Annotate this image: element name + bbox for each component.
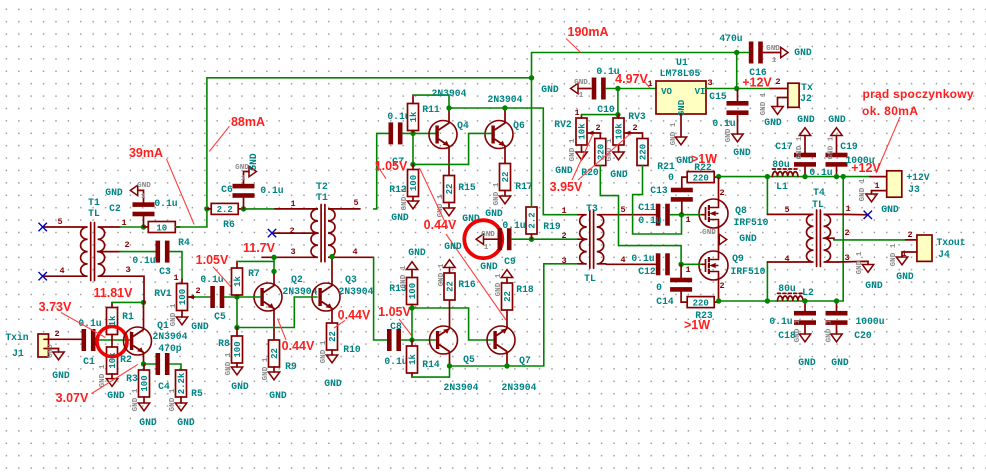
svg-text:2: 2: [775, 77, 780, 87]
svg-text:IRF510: IRF510: [734, 217, 769, 228]
ground J4: [896, 257, 907, 265]
node T4 pin5 drop: [765, 174, 770, 179]
svg-text:5: 5: [353, 198, 358, 208]
svg-text:1: 1: [845, 204, 850, 214]
transistor Q6 2N3904: [485, 121, 513, 149]
resistor R23 220: [687, 297, 714, 308]
svg-text:220: 220: [693, 298, 709, 308]
svg-text:R10: R10: [343, 344, 361, 355]
svg-text:Txin: Txin: [5, 332, 28, 343]
svg-text:GND 1: GND 1: [670, 122, 678, 145]
capacitor C20: [826, 311, 848, 325]
svg-text:GND: GND: [739, 233, 757, 244]
svg-text:GND: GND: [269, 390, 287, 401]
svg-text:39mA: 39mA: [129, 146, 163, 160]
mosfet Q9 IRF510: [699, 251, 728, 280]
resistor R7 1k: [232, 268, 243, 295]
svg-text:5: 5: [784, 205, 789, 215]
svg-text:0.1u: 0.1u: [638, 215, 661, 226]
wire C15 node to J2: [737, 88, 770, 90]
svg-text:GND: GND: [733, 147, 751, 158]
svg-text:220: 220: [639, 144, 649, 160]
svg-text:C10: C10: [597, 104, 615, 115]
svg-text:GND 1: GND 1: [495, 273, 503, 296]
svg-text:C14: C14: [656, 296, 674, 307]
node feed tee: [529, 75, 534, 80]
svg-text:10: 10: [156, 223, 167, 233]
potentiometer RV2 10k: [576, 118, 587, 145]
svg-text:1.05V: 1.05V: [378, 305, 411, 319]
ground R13 above: [406, 262, 417, 270]
svg-text:GND 1: GND 1: [320, 340, 328, 363]
svg-text:TL: TL: [812, 199, 824, 210]
capacitor C11: [656, 204, 670, 226]
svg-text:GND 1: GND 1: [170, 303, 178, 326]
wire node to T3 pin2: [532, 238, 579, 240]
wire C8 to Q5 base: [401, 339, 436, 341]
svg-text:R6: R6: [223, 219, 235, 230]
svg-text:220: 220: [693, 173, 709, 183]
resistor R3 100: [139, 370, 150, 397]
node collector Q1: [141, 300, 146, 305]
mosfet Q8 IRF510: [699, 199, 728, 228]
svg-text:R1: R1: [122, 311, 134, 322]
svg-text:RV3: RV3: [628, 111, 646, 122]
svg-text:GND: GND: [137, 182, 151, 190]
transformer T3: [561, 203, 625, 284]
wire U1 VI to C15 node: [706, 88, 737, 90]
svg-text:TL: TL: [88, 208, 100, 219]
svg-text:Q8: Q8: [735, 205, 747, 216]
svg-text:L1: L1: [776, 181, 788, 192]
svg-text:GND: GND: [555, 165, 573, 176]
svg-text:2N3904: 2N3904: [488, 94, 523, 105]
node Q2 base: [234, 294, 239, 299]
svg-text:R4: R4: [178, 237, 190, 248]
svg-text:4.97V: 4.97V: [615, 72, 648, 86]
wire R14 bottom to collector node: [412, 366, 450, 377]
svg-text:GND 1: GND 1: [438, 263, 446, 286]
wire T4 pin2 to J4: [834, 239, 906, 241]
node Q5 collector: [447, 363, 452, 368]
ground R10: [326, 355, 337, 363]
svg-text:1: 1: [574, 108, 579, 118]
ground J1: [53, 352, 64, 360]
svg-text:GND: GND: [896, 271, 914, 282]
ground RV3: [613, 152, 624, 160]
svg-text:R19: R19: [543, 221, 561, 232]
resistor R16 22: [444, 273, 455, 300]
wire 4.97V node down: [617, 89, 619, 115]
svg-text:GND 1: GND 1: [796, 136, 804, 159]
ground C10: [571, 83, 578, 93]
svg-text:GND 1: GND 1: [262, 357, 270, 380]
svg-text:>1W: >1W: [691, 152, 717, 166]
svg-text:GND 1: GND 1: [493, 182, 501, 205]
svg-text:U1: U1: [676, 57, 688, 68]
svg-text:GND: GND: [797, 114, 815, 125]
svg-text:GND 1: GND 1: [725, 119, 733, 142]
svg-text:2N3904: 2N3904: [444, 382, 479, 393]
svg-text:2: 2: [54, 329, 59, 339]
capacitor C5: [210, 286, 224, 308]
svg-text:R7: R7: [248, 268, 260, 279]
svg-text:100: 100: [178, 289, 188, 305]
capacitor C13: [671, 188, 693, 202]
svg-text:GND 1: GND 1: [760, 92, 768, 115]
wire T2 pin3 node down to Q2 collector: [273, 257, 275, 271]
svg-text:prąd spoczynkowy: prąd spoczynkowy: [863, 87, 974, 101]
svg-text:3: 3: [844, 253, 849, 263]
svg-text:2: 2: [195, 286, 200, 296]
node R6 right C6: [241, 206, 246, 211]
svg-text:GND: GND: [702, 229, 716, 237]
svg-text:ok. 80mA: ok. 80mA: [862, 104, 918, 118]
svg-text:GND: GND: [324, 378, 342, 389]
node T4 pin4 drop: [765, 298, 770, 303]
svg-text:100: 100: [408, 283, 418, 299]
svg-text:R21: R21: [657, 161, 675, 172]
svg-text:C1: C1: [83, 356, 95, 367]
svg-text:GND: GND: [766, 45, 780, 53]
svg-text:0.1u: 0.1u: [78, 318, 101, 329]
resistor R22 220: [687, 172, 714, 183]
svg-text:22: 22: [501, 172, 511, 183]
ground R15: [443, 208, 454, 216]
svg-text:C20: C20: [854, 330, 872, 341]
svg-text:GND 1: GND 1: [856, 251, 864, 274]
svg-text:R16: R16: [458, 279, 476, 290]
capacitor C19: [826, 153, 848, 167]
svg-text:10k: 10k: [578, 123, 588, 140]
wire T3 pin4 to C12: [606, 263, 656, 265]
svg-text:R11: R11: [422, 104, 440, 115]
svg-text:GND: GND: [248, 153, 259, 171]
svg-text:1: 1: [173, 273, 178, 283]
svg-text:C3: C3: [159, 266, 171, 277]
resistor R4 10: [148, 222, 175, 233]
wire RV2 wiper to R20: [594, 133, 600, 139]
node R12 tap: [410, 162, 415, 167]
capacitor C8: [387, 329, 401, 351]
svg-text:3: 3: [561, 256, 566, 266]
capacitor C15: [727, 101, 749, 115]
resistor R17 22: [500, 164, 511, 191]
svg-text:2: 2: [719, 188, 724, 198]
ground C15: [732, 134, 743, 142]
svg-text:2: 2: [844, 228, 849, 238]
node Q5 base: [409, 337, 414, 342]
resistor R12 100: [408, 170, 419, 197]
node R8 tap: [234, 325, 239, 330]
svg-text:GND: GND: [105, 187, 123, 198]
svg-text:R5: R5: [191, 388, 203, 399]
capacitor C17: [794, 153, 816, 167]
ground R17: [499, 196, 510, 204]
svg-text:1: 1: [141, 193, 146, 201]
svg-text:R18: R18: [516, 284, 534, 295]
svg-text:3.73V: 3.73V: [39, 300, 72, 314]
svg-text:GND: GND: [610, 169, 628, 180]
svg-text:Tx: Tx: [801, 82, 813, 93]
svg-text:2: 2: [124, 240, 129, 250]
svg-text:T1: T1: [316, 192, 328, 203]
wire T2 pin5 down to C7: [374, 133, 388, 209]
svg-text:1k: 1k: [108, 315, 118, 326]
node T2 pin3: [271, 255, 276, 260]
svg-text:GND: GND: [574, 79, 588, 87]
resistor R1 1k: [107, 308, 118, 335]
svg-text:2.2: 2.2: [528, 212, 538, 228]
ground R2: [106, 379, 117, 387]
capacitor C1: [82, 329, 96, 351]
svg-text:GND: GND: [408, 247, 426, 258]
wire T1 pin3 down to Q1 collector: [120, 276, 144, 302]
svg-text:80u: 80u: [772, 159, 790, 170]
svg-text:0.1u: 0.1u: [769, 316, 792, 327]
svg-text:C11: C11: [638, 202, 656, 213]
capacitor C14: [670, 278, 692, 292]
wire T3 pin5 to C11: [606, 214, 656, 216]
node C15: [734, 86, 739, 91]
svg-text:R8: R8: [218, 338, 230, 349]
svg-text:3: 3: [707, 78, 712, 88]
svg-text:T2: T2: [316, 181, 328, 192]
svg-text:1.05V: 1.05V: [196, 253, 229, 267]
node 4.97V: [615, 86, 620, 91]
svg-text:GND: GND: [881, 204, 899, 215]
resistor R11 1k: [408, 104, 419, 131]
wire R4 right up the feed rail: [176, 78, 532, 227]
ground C9: [476, 234, 483, 244]
no-connect T2 pin 2: [268, 229, 276, 237]
resistor R8 100: [232, 336, 243, 363]
svg-text:2N3904: 2N3904: [153, 331, 188, 342]
svg-text:VI: VI: [695, 87, 706, 97]
wire to T2 pin1: [244, 208, 276, 210]
wire C4 to R5: [170, 364, 182, 371]
svg-text:R14: R14: [422, 359, 440, 370]
resistor R14 1k: [407, 346, 418, 373]
svg-text:J1: J1: [12, 348, 24, 359]
svg-text:5: 5: [57, 217, 62, 227]
svg-text:GND 1: GND 1: [569, 138, 577, 161]
svg-text:C18: C18: [778, 330, 796, 341]
wire C1 to base node: [96, 339, 131, 341]
svg-text:J2: J2: [800, 93, 812, 104]
svg-text:T4: T4: [813, 187, 825, 198]
svg-text:C2: C2: [109, 203, 121, 214]
no-connect T1 pin 4: [39, 272, 47, 280]
svg-text:J4: J4: [938, 249, 950, 260]
svg-text:T3: T3: [586, 203, 598, 214]
svg-text:GND: GND: [541, 84, 559, 95]
connector J3 +12V: [872, 171, 902, 197]
wire C11 to gate node: [670, 214, 682, 216]
svg-text:Q3: Q3: [345, 274, 357, 285]
wire emitter to C4: [144, 363, 157, 365]
J1 pin 1 to ground: [49, 349, 59, 353]
svg-text:>1W: >1W: [684, 318, 710, 332]
ground R9: [268, 372, 279, 380]
wire Q2 base to Q3 base link: [237, 297, 317, 328]
ground C6: [249, 166, 256, 176]
transistor Q1 2N3904: [124, 327, 152, 355]
node Q3 collector at T2 pin4: [329, 254, 334, 259]
transistor Q2 2N3904: [254, 283, 282, 311]
capacitor C3: [156, 241, 170, 263]
svg-text:470u: 470u: [719, 33, 742, 44]
svg-text:2N3904: 2N3904: [432, 88, 467, 99]
svg-text:5: 5: [620, 205, 625, 215]
ground R16 above: [444, 260, 455, 268]
svg-text:GND: GND: [139, 417, 157, 428]
node R13 tap: [409, 305, 414, 310]
svg-text:0: 0: [668, 172, 674, 183]
J1 pin 2 wire: [49, 338, 82, 340]
ground C2: [130, 185, 137, 195]
svg-text:0: 0: [656, 282, 662, 293]
svg-text:LM78L05: LM78L05: [660, 68, 701, 79]
svg-text:C19: C19: [840, 141, 858, 152]
svg-text:GND: GND: [764, 117, 782, 128]
wire RV3 wiper to R21: [631, 133, 643, 139]
svg-text:Q2: Q2: [291, 274, 303, 285]
regulator U1 LM78L05: [656, 81, 706, 114]
wire T2 pin4 down to C8: [374, 257, 387, 340]
svg-text:22: 22: [270, 348, 280, 359]
U1 GND pin: [680, 114, 682, 137]
svg-text:C8: C8: [390, 321, 402, 332]
svg-text:C12: C12: [638, 266, 656, 277]
svg-text:1: 1: [685, 215, 690, 225]
svg-text:C15: C15: [709, 91, 727, 102]
svg-text:Q1: Q1: [157, 320, 169, 331]
svg-text:C9: C9: [504, 256, 516, 267]
wire C9 to R19 node: [512, 238, 532, 240]
svg-text:GND: GND: [191, 321, 209, 332]
svg-text:RV1: RV1: [154, 288, 172, 299]
ground C16: [781, 47, 788, 57]
svg-text:GND: GND: [391, 212, 409, 223]
node Q7 collector: [504, 363, 509, 368]
svg-text:GND 1: GND 1: [828, 136, 836, 159]
svg-text:88mA: 88mA: [231, 115, 265, 129]
svg-text:GND: GND: [485, 208, 503, 219]
potentiometer RV3 10k: [613, 118, 624, 145]
svg-text:GND: GND: [798, 357, 816, 368]
svg-text:GND: GND: [794, 47, 812, 58]
ground J3: [866, 194, 877, 202]
resistor R19 2.2: [526, 207, 537, 234]
svg-text:0.1u: 0.1u: [260, 185, 283, 196]
svg-text:2: 2: [632, 123, 637, 133]
svg-text:3: 3: [125, 265, 130, 275]
svg-text:100: 100: [233, 341, 243, 357]
wire R20 bottom to Q9 gate: [600, 166, 681, 265]
svg-text:1: 1: [685, 265, 690, 275]
ground Q8 Q9 source: [718, 222, 720, 258]
svg-text:T1: T1: [88, 197, 100, 208]
wire RV1 wiper to C5: [195, 296, 211, 298]
svg-text:2: 2: [719, 281, 724, 291]
svg-text:4: 4: [59, 266, 64, 276]
svg-text:GND: GND: [444, 241, 462, 252]
node Q6 collector: [502, 105, 507, 110]
node R23 right: [716, 298, 721, 303]
svg-text:2: 2: [595, 123, 600, 133]
svg-text:2N3904: 2N3904: [502, 382, 537, 393]
wire 190mA to C16 node: [532, 53, 737, 78]
svg-text:Q9: Q9: [732, 253, 744, 264]
transformer T2: [262, 181, 374, 262]
svg-text:0.1u: 0.1u: [384, 356, 407, 367]
ground RV2: [576, 152, 587, 160]
inductor L2 80u: [778, 296, 803, 301]
svg-text:GND 1: GND 1: [401, 187, 409, 210]
connector J4 Txout: [902, 235, 932, 261]
svg-text:GND 1: GND 1: [890, 243, 898, 266]
svg-text:1: 1: [290, 199, 295, 209]
svg-text:GND: GND: [177, 417, 195, 428]
svg-text:1000u: 1000u: [855, 316, 884, 327]
svg-text:Q4: Q4: [457, 120, 469, 131]
svg-text:R17: R17: [515, 181, 533, 192]
svg-text:22: 22: [446, 281, 456, 292]
resistor R9 22: [269, 340, 280, 367]
wire C3 to RV1: [170, 252, 183, 280]
svg-text:1: 1: [772, 57, 777, 65]
svg-text:0.1u: 0.1u: [631, 253, 654, 264]
svg-text:J3: J3: [908, 184, 920, 195]
svg-text:GND: GND: [47, 344, 55, 358]
svg-text:190mA: 190mA: [568, 25, 609, 39]
svg-text:0.1u: 0.1u: [132, 255, 155, 266]
svg-text:100: 100: [409, 175, 419, 191]
svg-text:R2: R2: [120, 354, 132, 365]
svg-text:GND: GND: [831, 357, 849, 368]
svg-text:1: 1: [561, 206, 566, 216]
wire C5 to base node: [224, 296, 237, 298]
inductor L1 80u: [772, 172, 797, 177]
node Q4 collector: [446, 105, 451, 110]
svg-text:1k: 1k: [233, 276, 243, 287]
svg-text:0.1u: 0.1u: [809, 167, 832, 178]
capacitor C10: [592, 78, 606, 100]
svg-text:GND 1: GND 1: [400, 265, 408, 288]
resistor R5 2.2k: [176, 370, 187, 397]
svg-text:GND: GND: [231, 381, 249, 392]
red highlight circle base node: [97, 327, 127, 357]
svg-text:Q7: Q7: [519, 355, 531, 366]
wire node up to C16: [736, 53, 738, 89]
svg-text:2: 2: [907, 230, 912, 240]
node R19 bottom: [529, 237, 534, 242]
transistor Q5 2N3904 mirrored: [430, 326, 458, 354]
node R22 right: [716, 174, 721, 179]
svg-text:GND: GND: [865, 280, 883, 291]
svg-text:2: 2: [561, 231, 566, 241]
no-connect T4 pin1: [846, 213, 868, 215]
ground J2: [772, 107, 783, 115]
svg-text:2N3904: 2N3904: [339, 286, 374, 297]
resistor R21 220: [637, 139, 648, 166]
connector J2 Tx: [778, 83, 800, 107]
svg-text:0.44V: 0.44V: [338, 308, 371, 322]
svg-text:GND 1: GND 1: [132, 388, 140, 411]
svg-text:C13: C13: [650, 185, 668, 196]
svg-text:3.95V: 3.95V: [550, 180, 583, 194]
